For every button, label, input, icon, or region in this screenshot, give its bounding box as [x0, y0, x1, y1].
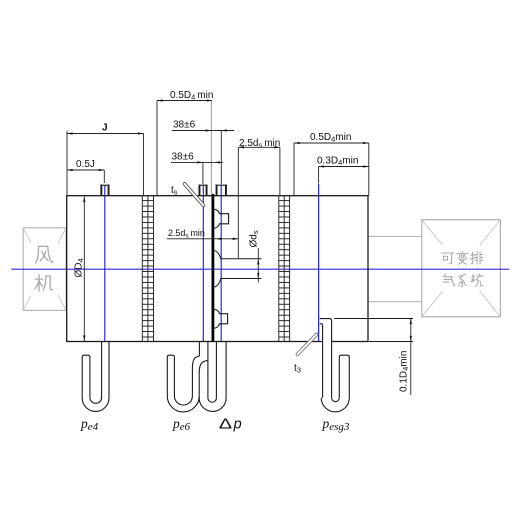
exhaust box (可变排气系统) — [422, 220, 501, 317]
upstream tap plane (blue) — [202, 186, 204, 342]
dimension 0.5D4min right — [294, 142, 369, 144]
svg-text:J: J — [102, 123, 108, 134]
manometer delta-p — [199, 342, 226, 412]
svg-text:0.5J: 0.5J — [76, 159, 95, 170]
svg-text:0.5D4min: 0.5D4min — [310, 132, 351, 144]
dimension 38+-6 lower — [171, 161, 223, 163]
dimension 0.3D4min — [319, 166, 369, 168]
svg-text:2.5ds min: 2.5ds min — [239, 138, 280, 150]
dimension Ods — [257, 248, 259, 283]
dimension OD4 — [83, 197, 85, 342]
pressure tap boss downstream — [216, 185, 227, 196]
orifice plate — [212, 194, 215, 342]
dimension 38+-6 upper — [172, 130, 234, 132]
svg-text:0.5D4 min: 0.5D4 min — [170, 90, 213, 102]
dimension 0.5D4min left — [157, 100, 212, 102]
static probe + manometer pesg3 — [320, 319, 350, 412]
svg-text:38±6: 38±6 — [172, 151, 195, 162]
leader t3 — [295, 333, 318, 357]
chinese text fan — [35, 246, 53, 291]
downstream tap plane (blue) — [220, 186, 222, 342]
svg-text:t3: t3 — [294, 363, 301, 375]
svg-text:0.1D4min: 0.1D4min — [399, 351, 411, 392]
connector duct to exhaust box — [368, 236, 422, 301]
svg-text:ØD4: ØD4 — [74, 258, 86, 277]
dimension 0.5J — [67, 169, 104, 171]
orifice carrier upper bracket — [214, 209, 228, 228]
chinese text exhaust — [442, 251, 484, 287]
dimension 2.5ds min top — [238, 146, 280, 148]
duct body — [67, 196, 368, 342]
dimension 0.1D4min — [410, 319, 412, 396]
svg-text:p: p — [233, 417, 242, 433]
centerline (blue) — [11, 268, 509, 270]
flow straightener right — [279, 196, 290, 342]
dimension J — [67, 133, 144, 135]
plane pesg3 (blue) — [318, 184, 320, 342]
svg-text:Δ: Δ — [219, 415, 233, 432]
measurement plane pe4 (blue) — [104, 186, 106, 342]
orifice bore edges with flares — [214, 250, 261, 287]
orifice carrier lower bracket — [214, 309, 227, 328]
manometer pe4 — [82, 342, 109, 412]
svg-text:38±6: 38±6 — [173, 120, 196, 131]
dimension 2.5ds min inside — [167, 238, 238, 240]
flow straightener left — [142, 196, 153, 342]
svg-text:ts: ts — [171, 185, 178, 197]
pressure tap boss upstream — [199, 185, 208, 196]
svg-text:0.3D4min: 0.3D4min — [317, 156, 358, 168]
leader ts — [183, 182, 206, 207]
svg-text:Øds: Øds — [249, 230, 261, 247]
manometer pe6 + shared upstream tube — [167, 342, 208, 412]
fan box (风机) — [23, 228, 66, 311]
pressure tap boss pe4 — [100, 185, 109, 196]
